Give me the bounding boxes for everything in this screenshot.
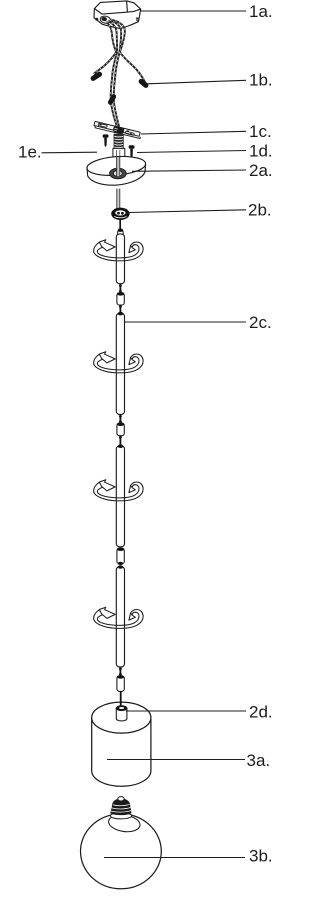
wire connector middle — [107, 93, 117, 105]
link — [119, 414, 121, 423]
screw base — [110, 798, 131, 815]
globe 3b — [81, 797, 162, 889]
link — [119, 305, 121, 313]
svg-text:2a.: 2a. — [249, 161, 273, 180]
svg-text:1c.: 1c. — [249, 122, 272, 141]
collar tube — [113, 148, 125, 158]
stem rod through canopy — [117, 157, 120, 209]
rotation arrow 1 — [94, 240, 144, 261]
neck collar — [108, 813, 142, 834]
wire connector left — [90, 71, 103, 82]
svg-text:3a.: 3a. — [247, 751, 271, 770]
rotation arrow 4 — [94, 607, 144, 628]
rod tube 3 — [116, 444, 124, 546]
mounting bracket 1c — [94, 121, 140, 158]
svg-text:1d.: 1d. — [249, 142, 273, 161]
canopy disc 2a — [86, 154, 146, 185]
lock ring 2b — [111, 208, 129, 230]
svg-text:2d.: 2d. — [249, 703, 273, 722]
link — [119, 667, 121, 676]
coupler 2 — [117, 422, 124, 435]
rod top connector — [118, 229, 124, 235]
rod tube 2 — [116, 312, 124, 415]
cylinder shade 3a — [92, 702, 151, 786]
svg-text:1a.: 1a. — [249, 2, 273, 21]
base skirt — [110, 813, 131, 819]
rod tube 4 — [116, 565, 124, 667]
strain gland — [112, 125, 124, 134]
link — [119, 436, 121, 446]
connector 2d — [116, 706, 127, 721]
wires 1b — [90, 20, 150, 128]
threaded nipple — [114, 134, 123, 149]
svg-text:2b.: 2b. — [248, 201, 272, 220]
coupler 4 — [117, 675, 124, 691]
svg-text:1b.: 1b. — [249, 71, 273, 90]
base tip — [118, 797, 124, 801]
coupler 3 — [117, 547, 124, 565]
rotation arrow 3 — [94, 480, 144, 501]
svg-text:1e.: 1e. — [18, 143, 42, 162]
rotation arrow 2 — [94, 352, 144, 373]
rod tube 1 — [116, 234, 124, 284]
svg-text:2c.: 2c. — [249, 313, 272, 332]
screw 1d (right) — [129, 145, 135, 158]
coupler 1 — [117, 292, 124, 305]
wire connector right — [138, 78, 150, 89]
screw 1e (left) — [103, 134, 109, 147]
svg-text:3b.: 3b. — [249, 847, 273, 866]
center hole — [110, 168, 127, 178]
canopy mount box 1a — [94, 1, 141, 29]
link — [119, 284, 121, 293]
leader lines — [42, 11, 247, 858]
link to shade — [120, 691, 122, 706]
